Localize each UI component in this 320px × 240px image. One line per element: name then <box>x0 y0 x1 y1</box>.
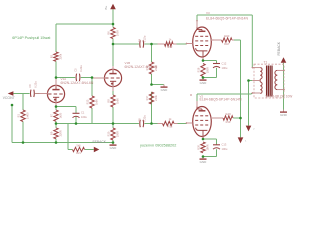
svg-text:R8: R8 <box>107 99 111 103</box>
svg-text:1k00: 1k00 <box>225 112 231 116</box>
svg-text:0.22u: 0.22u <box>143 35 147 42</box>
svg-text:R14: R14 <box>145 65 149 70</box>
svg-text:220R: 220R <box>59 130 63 136</box>
svg-text:R7: R7 <box>50 113 54 117</box>
svg-text:6P14P Pushpull 15wat: 6P14P Pushpull 15wat <box>12 36 51 40</box>
svg-text:1k80: 1k80 <box>95 99 99 105</box>
svg-text:V3: V3 <box>206 11 210 15</box>
svg-text:1k00: 1k00 <box>224 34 230 38</box>
svg-text:220k: 220k <box>154 64 158 70</box>
svg-text:180R: 180R <box>116 131 120 137</box>
svg-text:C9: C9 <box>28 84 32 88</box>
svg-text:6N2N-12AX7-6N4-6N: 6N2N-12AX7-6N4-6N <box>125 65 158 69</box>
svg-text:5k6: 5k6 <box>76 144 81 148</box>
svg-text:GND: GND <box>200 160 208 164</box>
svg-text:6N2N-12AX7-6N4-6N: 6N2N-12AX7-6N4-6N <box>61 81 94 85</box>
svg-text:R21: R21 <box>76 151 81 155</box>
svg-text:R13: R13 <box>168 124 173 128</box>
svg-text:FEBACK: FEBACK <box>277 41 281 55</box>
svg-text:T1: T1 <box>264 61 268 65</box>
svg-text:FEBACK: FEBACK <box>93 140 107 144</box>
svg-text:GND: GND <box>161 88 169 92</box>
svg-text:100u: 100u <box>81 115 87 119</box>
svg-text:R15: R15 <box>86 99 90 104</box>
svg-text:R10: R10 <box>107 131 111 136</box>
svg-text:100R: 100R <box>116 30 120 36</box>
svg-text:R6: R6 <box>107 31 111 35</box>
svg-text:C5: C5 <box>74 68 78 72</box>
svg-text:R1: R1 <box>17 113 21 117</box>
svg-text:VCCINT: VCCINT <box>3 96 15 100</box>
svg-text:B+: B+ <box>104 5 108 9</box>
svg-text:R5: R5 <box>50 54 54 58</box>
svg-text:EL84-6BQ5-6P14P-6N14N: EL84-6BQ5-6P14P-6N14N <box>206 17 248 21</box>
svg-text:EL84-6BQ5-6P14P-6N14N: EL84-6BQ5-6P14P-6N14N <box>200 98 242 102</box>
svg-text:C12: C12 <box>222 61 227 65</box>
svg-text:0.22u: 0.22u <box>79 65 83 72</box>
svg-text:GND: GND <box>280 113 288 117</box>
svg-text:100u: 100u <box>222 147 228 151</box>
svg-text:C13: C13 <box>222 143 227 147</box>
svg-text:GND: GND <box>110 146 118 150</box>
svg-text:C4: C4 <box>137 38 141 42</box>
svg-text:R16: R16 <box>197 67 201 72</box>
svg-text:GND: GND <box>200 81 208 85</box>
svg-text:0.22u: 0.22u <box>33 81 37 88</box>
svg-text:yuzenvn 0902588202: yuzenvn 0902588202 <box>140 143 176 147</box>
svg-text:1k80: 1k80 <box>116 98 120 104</box>
svg-text:0.22u: 0.22u <box>143 115 147 122</box>
svg-text:R12: R12 <box>168 45 173 49</box>
svg-text:1k50: 1k50 <box>59 112 63 118</box>
svg-text:180R: 180R <box>206 144 210 150</box>
svg-text:1M00: 1M00 <box>26 112 30 119</box>
svg-text:R20: R20 <box>197 144 201 149</box>
svg-text:180R: 180R <box>206 67 210 73</box>
svg-text:5k-0R-8R OR 10W: 5k-0R-8R OR 10W <box>266 94 293 98</box>
svg-text:R9: R9 <box>50 131 54 135</box>
svg-text:220k: 220k <box>59 53 63 59</box>
svg-text:100u: 100u <box>222 66 228 70</box>
svg-text:220k: 220k <box>154 94 158 100</box>
svg-text:R18: R18 <box>224 42 229 46</box>
svg-text:C1: C1 <box>81 111 85 115</box>
svg-text:R17: R17 <box>145 95 149 100</box>
svg-text:R19: R19 <box>226 120 231 124</box>
svg-text:C8: C8 <box>137 118 141 122</box>
